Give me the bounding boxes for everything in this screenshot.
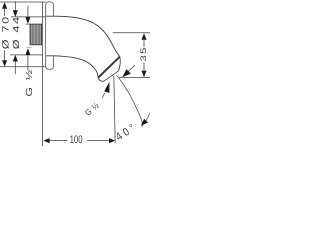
dim O44 bottom extension line [10, 54, 42, 56]
svg-text:G ½: G ½ [24, 68, 34, 96]
dim 35 line lower segment [143, 63, 145, 71]
vertical extension line at outlet [114, 76, 115, 144]
dim O70 top arrow [2, 2, 7, 9]
outlet bottom corner [98, 78, 103, 82]
outlet G1/2 leader arrow [104, 82, 109, 93]
dim O70 line upper segment [4, 8, 6, 16]
outlet axis line at 40 deg [116, 75, 142, 127]
dim O70 bottom arrow [2, 60, 7, 67]
dim 35 top extension line [113, 32, 150, 34]
svg-text:35: 35 [139, 46, 148, 61]
dim G1/2 wall top arrow [25, 17, 30, 24]
dim 100 left arrow [43, 138, 49, 143]
dim 35 line upper segment [143, 40, 145, 47]
angle 40 lower leader arrow [141, 119, 148, 126]
dim 35 bottom arrow [141, 71, 146, 78]
dim O44 bottom arrow [13, 55, 18, 62]
outlet face thick line [98, 57, 120, 78]
dim G1/2 wall line lower tail [27, 55, 29, 71]
dim 100 line left segment [50, 140, 68, 142]
wall line [42, 2, 44, 146]
outlet G1/2 leader line [102, 93, 105, 98]
dim 35 bottom extension line [119, 76, 150, 78]
shower arm bottom edge [46, 56, 98, 78]
thread pilot bottom edge [26, 47, 32, 49]
thread top edge extension [26, 23, 30, 25]
svg-text:Ø 44: Ø 44 [11, 15, 21, 49]
dim O44 top extension line [11, 16, 46, 18]
shower arm top edge [46, 16, 119, 56]
svg-text:G ½: G ½ [83, 100, 101, 118]
svg-text:Ø 70: Ø 70 [1, 15, 11, 49]
dim O70 line lower segment [4, 50, 6, 61]
dim 100 line right segment [87, 140, 109, 142]
escutcheon plate top edge / dim extension [0, 1, 46, 3]
outlet thread end face [104, 71, 119, 81]
shower arm body fill [46, 16, 120, 81]
dim O44 line upper tail [14, 1, 16, 10]
dim G1/2 wall bottom arrow [25, 48, 30, 55]
dim O44 line lower tail [14, 61, 16, 74]
dim O44 top arrow [13, 10, 18, 17]
outlet right edge [119, 57, 121, 71]
escutcheon plate bottom edge / dim extension [0, 66, 46, 68]
angle 40 upper leader line [123, 65, 135, 77]
knurled wall thread G1/2 [30, 24, 42, 45]
flange hub body [46, 2, 54, 69]
angle 40 upper leader arrow [122, 69, 130, 77]
svg-text:100: 100 [70, 134, 83, 146]
angle 40 lower leader line [146, 113, 150, 121]
svg-text:40°: 40° [114, 121, 140, 144]
dim G1/2 wall line upper tail [27, 6, 29, 18]
dim 35 top arrow [141, 33, 146, 40]
dim 100 right arrow [109, 138, 115, 143]
